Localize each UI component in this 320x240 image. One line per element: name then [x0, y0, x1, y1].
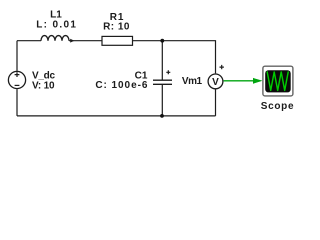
svg-text:R: 10: R: 10	[103, 22, 130, 33]
svg-text:V: V	[212, 77, 219, 88]
svg-text:L: 0.01: L: 0.01	[36, 19, 77, 30]
svg-text:C: 100e-6: C: 100e-6	[95, 80, 148, 91]
svg-text:V: 10: V: 10	[32, 80, 55, 91]
svg-text:Vm1: Vm1	[182, 76, 203, 87]
svg-text:Scope: Scope	[261, 101, 295, 112]
